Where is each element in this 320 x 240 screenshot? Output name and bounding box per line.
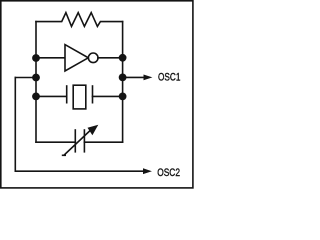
svg-text:OSC2: OSC2 (157, 167, 180, 179)
svg-text:OSC1: OSC1 (158, 71, 180, 83)
